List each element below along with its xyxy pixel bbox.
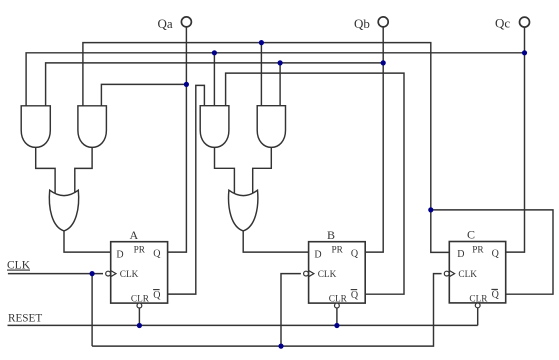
junction dot QbarC bus to AND4 (259, 40, 264, 45)
terminal Qc circle (520, 17, 530, 27)
wire net-QbarB (y=73.1 line from AND3 input to FF B Qbar) (226, 73, 404, 294)
wire net-QC drop to AND3 input (213, 53, 215, 106)
junction dot QB bus to Qb riser (381, 60, 386, 65)
wire net-QbarC bus (bus1 y=42.6 from AND2 input to right riser x=430.8) (83, 43, 431, 210)
AND gate U4 (middle group, inputs QbarC QB) (257, 106, 285, 148)
svg-text:CLK: CLK (120, 270, 139, 280)
OR gate U5 (left group) (49, 190, 78, 231)
svg-text:Q: Q (351, 249, 359, 260)
wire D input of FF C (431, 210, 450, 253)
wire CLK input line (8, 273, 103, 275)
svg-text:A: A (130, 228, 139, 242)
svg-text:D: D (457, 249, 464, 260)
svg-text:C: C (467, 227, 475, 241)
clear bubble FF A (137, 303, 142, 308)
flip-flop A box (111, 242, 168, 303)
svg-text:CLR: CLR (469, 294, 488, 304)
junction dot clock bus to FF B (278, 344, 283, 349)
AND gate U1 (left group, inputs QC QB) (21, 106, 50, 148)
svg-text:Q: Q (492, 248, 500, 259)
wire net-QbarA (hairpin from FF A Qbar up to AND3 input) (168, 85, 205, 294)
junction dot QC bus to Qc riser (522, 50, 527, 55)
wire bottom clock bus (92, 274, 442, 347)
clear bubble FF B (335, 303, 340, 308)
junction dot RESET to FF B CLR (334, 323, 339, 328)
svg-text:RESET: RESET (8, 312, 42, 324)
svg-text:PR: PR (472, 246, 484, 256)
svg-text:Q: Q (492, 290, 500, 301)
junction dot QbarC to D of FF C (428, 207, 433, 212)
wire net-QB drop to AND4 input (279, 63, 281, 106)
svg-text:CLR: CLR (131, 294, 150, 304)
svg-text:Q: Q (153, 290, 161, 301)
svg-text:Qa: Qa (158, 16, 173, 31)
wire QbarC from FF C Qbar output to junction (431, 210, 553, 294)
clear bubble FF C (475, 303, 480, 308)
wire net-QA bus (bus4 y=84.4 from AND2 input to Qa riser) (101, 84, 186, 105)
terminal Qb circle (378, 17, 388, 27)
wire net-QC bus (bus2 y=52.8 from AND1 input up-over to Qc riser) (26, 53, 524, 106)
wire net-QbarC drop to AND4 input (260, 43, 262, 106)
wire Q output of FF A to Qa riser (168, 27, 187, 252)
svg-text:D: D (116, 249, 123, 260)
wire AND2 output jog to OR1 (75, 147, 92, 193)
junction dot QB bus to AND4 (278, 60, 283, 65)
svg-text:Q: Q (351, 290, 359, 301)
flip-flop C box (449, 242, 505, 303)
clock edge triangle FF A (111, 271, 116, 277)
svg-text:B: B (327, 228, 335, 242)
wire OR1 output to D input of FF A (64, 231, 111, 252)
clock edge triangle FF C (449, 271, 454, 277)
wire OR2 output to D input of FF B (243, 231, 308, 252)
wire net-QB bus (bus3 y=62.9 from AND1 input to QB riser) (46, 63, 384, 106)
svg-text:CLK: CLK (458, 270, 477, 280)
clock edge triangle FF B (309, 271, 314, 277)
svg-text:PR: PR (134, 246, 146, 256)
wire CLR riser of FF C (477, 308, 479, 326)
clock bubble FF A (106, 271, 111, 276)
AND gate U2 (left group, inputs QbarC QA) (78, 106, 107, 148)
svg-text:Q: Q (153, 249, 161, 260)
svg-text:CLK: CLK (7, 260, 31, 272)
svg-text:Qc: Qc (495, 16, 510, 31)
wire CLK riser down to bottom clock bus (91, 274, 93, 347)
flip-flop B box (309, 242, 366, 303)
wire AND4 output jog to OR2 (253, 147, 272, 193)
junction dot QC bus to AND3 (212, 50, 217, 55)
wire Q output of FF B to Qb riser (365, 27, 383, 252)
svg-text:D: D (314, 249, 321, 260)
svg-text:PR: PR (332, 246, 344, 256)
OR gate U6 (middle group) (229, 190, 258, 231)
svg-text:CLR: CLR (329, 294, 348, 304)
wire RESET input line (8, 324, 478, 326)
wire CLR riser of FF B (336, 308, 338, 325)
junction dot CLK branch (90, 271, 95, 276)
clock bubble FF B (304, 271, 309, 276)
terminal Qa circle (181, 17, 191, 27)
junction dot QA/bus4 (184, 82, 189, 87)
svg-text:CLK: CLK (318, 270, 337, 280)
wire CLR riser of FF A (138, 308, 140, 325)
AND gate U3 (middle group, 3 inputs QbarA QC QbarB) (200, 106, 229, 148)
wire AND1 output jog to OR1 (36, 147, 55, 193)
wire clock branch to FF B (281, 274, 301, 347)
wire AND3 output jog to OR2 (215, 147, 235, 193)
junction dot RESET to FF A CLR (137, 323, 142, 328)
clock bubble FF C (444, 271, 449, 276)
wire Q output of FF C to Qc riser (506, 27, 525, 252)
svg-text:Qb: Qb (354, 16, 370, 31)
